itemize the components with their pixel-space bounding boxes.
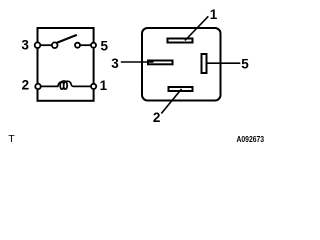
svg-text:2: 2 bbox=[153, 110, 161, 125]
wire: terminal 2 to coil bbox=[39, 85, 59, 87]
svg-text:5: 5 bbox=[241, 56, 249, 71]
wire: coil to terminal 1 bbox=[73, 85, 93, 87]
relay coil L1 bbox=[58, 81, 74, 89]
wire: switch contact to terminal 5 bbox=[80, 44, 93, 46]
svg-text:3: 3 bbox=[21, 38, 29, 53]
switch arm bbox=[57, 35, 77, 43]
svg-text:1: 1 bbox=[100, 78, 108, 93]
svg-text:T: T bbox=[8, 133, 15, 145]
terminal slot 1 (top) bbox=[168, 39, 193, 43]
relay connector body outline bbox=[142, 28, 221, 101]
node: terminal 2 circle bbox=[35, 84, 40, 89]
node: switch right contact circle bbox=[75, 43, 80, 48]
relay schematic box K1 bbox=[38, 28, 94, 101]
leader line to label 1 bbox=[185, 16, 208, 40]
svg-text:1: 1 bbox=[210, 7, 218, 22]
terminal slot 2 (bottom) bbox=[169, 87, 193, 91]
node: terminal 1 circle bbox=[91, 84, 96, 89]
svg-text:5: 5 bbox=[100, 39, 108, 54]
terminal slot 5 (right) bbox=[202, 54, 207, 73]
svg-text:2: 2 bbox=[22, 78, 30, 93]
node: switch left contact circle bbox=[52, 42, 58, 48]
leader line to label 3 bbox=[121, 61, 154, 63]
terminal slot 3 (left) bbox=[148, 61, 173, 65]
leader line to label 5 bbox=[208, 62, 241, 64]
node: terminal 3 circle bbox=[35, 42, 41, 48]
leader line to label 2 bbox=[161, 89, 181, 114]
svg-text:A092673: A092673 bbox=[237, 134, 265, 144]
wire: terminal 3 to switch contact bbox=[39, 44, 53, 46]
svg-text:3: 3 bbox=[111, 56, 119, 71]
node: terminal 5 circle bbox=[91, 43, 96, 48]
